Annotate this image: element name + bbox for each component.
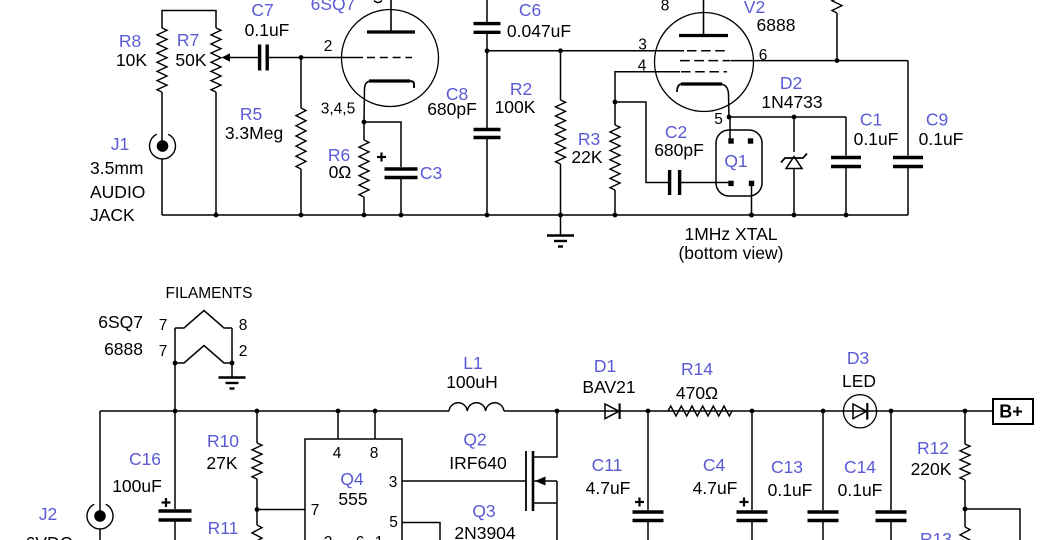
node R3 junction — [613, 100, 618, 105]
wire J2 bottom — [99, 529, 101, 540]
node rail2 x375 — [373, 409, 378, 414]
svg-text:0Ω: 0Ω — [329, 162, 352, 182]
label Q2 — [463, 430, 486, 450]
wire top bracket R8-R7 — [162, 11, 216, 29]
label C3 — [420, 163, 442, 183]
svg-text:L1: L1 — [463, 353, 482, 373]
label 6SQ7 — [311, 0, 356, 14]
label R3 value — [571, 147, 602, 167]
svg-text:IRF640: IRF640 — [449, 453, 507, 473]
label C1 value — [854, 129, 899, 149]
svg-text:2: 2 — [324, 534, 333, 540]
node Q1 rail — [749, 213, 754, 218]
resistor R1 (cut) — [832, 0, 842, 61]
svg-text:2N3904: 2N3904 — [454, 523, 516, 540]
svg-text:3.5mm: 3.5mm — [90, 158, 143, 178]
svg-text:2: 2 — [239, 343, 248, 360]
pin label 8 — [661, 0, 670, 15]
resistor R3 — [610, 125, 620, 190]
svg-text:FILAMENTS: FILAMENTS — [166, 285, 253, 302]
label JACK — [90, 205, 135, 225]
svg-text:4: 4 — [333, 445, 342, 462]
pin stub 4 — [337, 411, 339, 439]
label C7 value — [245, 20, 290, 40]
svg-text:4.7uF: 4.7uF — [693, 478, 738, 498]
label C2 value — [654, 140, 704, 160]
svg-text:6SQ7: 6SQ7 — [98, 312, 143, 332]
label 3.5mm — [90, 158, 143, 178]
wire C7 to V1 grid — [269, 57, 363, 59]
wire C16 top — [174, 411, 176, 509]
label C11 value — [586, 478, 631, 498]
label 6888 — [757, 15, 796, 35]
svg-text:50K: 50K — [175, 50, 206, 70]
svg-text:R7: R7 — [177, 30, 199, 50]
resistor R13 (cut) — [960, 527, 970, 540]
label C7 — [251, 0, 273, 20]
svg-text:8: 8 — [370, 445, 379, 462]
Q2 body stub — [533, 477, 557, 486]
svg-text:C14: C14 — [844, 457, 876, 477]
wire pin5 — [402, 523, 440, 540]
wire R12 top — [964, 411, 966, 444]
wire filament left — [174, 328, 176, 411]
svg-text:C9: C9 — [926, 110, 948, 130]
label Q1 — [724, 151, 747, 171]
plus C3 — [377, 153, 386, 162]
label bottom view — [678, 243, 783, 263]
svg-text:1N4733: 1N4733 — [761, 92, 822, 112]
node rail x401 — [399, 213, 404, 218]
plus C16 — [162, 498, 171, 507]
capacitor C1 — [831, 158, 861, 167]
wire ground stem — [560, 215, 562, 235]
resistor R8 — [157, 28, 167, 92]
Q1 pad2 — [748, 138, 753, 143]
svg-text:100uH: 100uH — [446, 372, 498, 392]
wire R6 bottom — [363, 197, 365, 215]
wire pin7 — [257, 509, 305, 511]
jack J1 — [150, 134, 176, 159]
label R10 value — [206, 453, 237, 473]
svg-text:C11: C11 — [592, 455, 623, 475]
capacitor C4 — [737, 512, 768, 521]
label L1 — [463, 353, 482, 373]
wire R7 to rail — [215, 92, 217, 215]
IC Q4 555 box — [305, 439, 402, 540]
label 2N3904 — [454, 523, 516, 540]
svg-text:C13: C13 — [771, 457, 803, 477]
capacitor C16 — [159, 511, 192, 520]
svg-text:Q3: Q3 — [472, 501, 495, 521]
label Q4 — [340, 469, 364, 489]
plus C4 — [740, 498, 749, 507]
label 6VDC (cut) — [26, 533, 73, 540]
wire Q1 to rail — [751, 186, 753, 215]
label C16 value — [112, 476, 162, 496]
label 1MHz XTAL — [684, 224, 777, 244]
wire R3 bottom — [614, 190, 616, 215]
capacitor C9 — [893, 158, 923, 167]
svg-text:R2: R2 — [510, 79, 532, 99]
node rail x794 — [792, 213, 797, 218]
wire supply rail — [100, 410, 993, 412]
label R6 value — [329, 162, 352, 182]
node rail x216 — [214, 213, 219, 218]
svg-text:D1: D1 — [594, 356, 616, 376]
svg-text:C4: C4 — [703, 455, 726, 475]
wire C11 top — [647, 411, 649, 510]
svg-text:4: 4 — [638, 58, 647, 75]
label C4 — [703, 455, 726, 475]
svg-text:Q1: Q1 — [724, 151, 747, 171]
wire C2 route — [615, 102, 668, 183]
svg-text:(bottom view): (bottom view) — [678, 243, 783, 263]
wire C13 bottom — [822, 522, 824, 540]
wire R10 top — [256, 411, 258, 443]
svg-text:8: 8 — [661, 0, 670, 15]
node rail2 x557 — [555, 409, 560, 414]
label AUDIO — [90, 182, 145, 202]
wire pin5 to Q1 — [729, 117, 731, 140]
svg-text:R10: R10 — [207, 431, 239, 451]
svg-text:5: 5 — [714, 111, 723, 128]
svg-text:7: 7 — [159, 317, 168, 334]
wire R3 top — [614, 102, 616, 125]
tube V2 envelope — [655, 13, 754, 112]
wire C11 bottom — [647, 522, 649, 540]
wire C6 top — [486, 0, 488, 22]
node rail2 x175 — [173, 409, 178, 414]
svg-text:6888: 6888 — [104, 339, 143, 359]
wire pin3 — [402, 480, 526, 482]
node filament left — [173, 361, 178, 366]
node R10-R11 — [255, 507, 260, 512]
wire C4 bottom — [751, 522, 753, 540]
pin label 8b — [370, 445, 379, 462]
svg-text:JACK: JACK — [90, 205, 135, 225]
pin label 2 (cut) — [324, 534, 333, 540]
wire J1 to rail — [161, 159, 163, 216]
label R12 — [917, 438, 949, 458]
svg-text:27K: 27K — [206, 453, 237, 473]
wire R2 bottom — [560, 164, 562, 215]
Q2 source stub — [533, 502, 557, 504]
label R14 — [681, 359, 713, 379]
pin label 7c — [311, 502, 320, 519]
label R8 — [119, 31, 141, 51]
resistor R6 — [359, 140, 369, 197]
wire ground rail (top) — [162, 214, 908, 216]
svg-text:0.1uF: 0.1uF — [919, 129, 964, 149]
wire J2 drop — [99, 411, 101, 511]
svg-text:C1: C1 — [860, 110, 882, 130]
node rail x487 — [485, 213, 490, 218]
label C6 value — [507, 21, 571, 41]
pin label 8a — [239, 317, 248, 334]
wire C6 bottom — [486, 33, 488, 51]
ground (filaments) — [219, 378, 246, 389]
wire pin5 node — [729, 116, 846, 118]
wire C9 bottom — [907, 168, 909, 215]
wire R12 bottom — [964, 480, 966, 509]
svg-text:680pF: 680pF — [427, 99, 477, 119]
label R5 value — [225, 123, 283, 143]
node rail2 x648 — [646, 409, 651, 414]
svg-text:C6: C6 — [519, 0, 541, 20]
V2 grid3 (dashed) — [654, 71, 727, 73]
pin label 2a — [239, 343, 248, 360]
V2 grid1 (dashed) — [687, 50, 729, 52]
svg-text:555: 555 — [338, 489, 367, 509]
svg-text:8: 8 — [239, 317, 248, 334]
label Q3 — [472, 501, 495, 521]
pin label 5b — [389, 514, 398, 531]
V2 cathode — [677, 84, 729, 118]
svg-text:R13: R13 — [920, 529, 952, 540]
svg-text:B+: B+ — [999, 402, 1023, 422]
wire R8 to J1 — [161, 92, 163, 141]
label C9 value — [919, 129, 964, 149]
wire C16 bottom — [174, 522, 176, 540]
svg-text:3: 3 — [389, 474, 398, 491]
svg-text:10K: 10K — [116, 50, 147, 70]
Q1 pad3 — [728, 181, 733, 186]
svg-text:0.1uF: 0.1uF — [768, 480, 813, 500]
svg-text:7: 7 — [311, 502, 320, 519]
svg-text:470Ω: 470Ω — [676, 383, 718, 403]
svg-text:Q2: Q2 — [463, 430, 486, 450]
plus C11 — [635, 498, 644, 507]
wire filament right — [231, 328, 233, 377]
label IRF640 — [449, 453, 507, 473]
Q2 drain stub — [533, 411, 557, 457]
label B+ — [999, 402, 1023, 422]
label C13 value — [768, 480, 813, 500]
svg-text:3: 3 — [638, 37, 647, 54]
wire C3 bottom — [400, 179, 402, 215]
label D2 — [780, 73, 802, 93]
capacitor C2 — [670, 170, 680, 195]
label V2 — [744, 0, 765, 17]
pin label 1 (cut) — [375, 534, 384, 540]
label D3 — [847, 348, 869, 368]
capacitor C3 — [385, 169, 418, 178]
node rail x615 — [613, 213, 618, 218]
svg-text:5: 5 — [389, 514, 398, 531]
node V1 grid junction — [299, 55, 304, 60]
label LED — [842, 371, 876, 391]
label C1 — [860, 110, 882, 130]
wire C14 top — [890, 411, 892, 510]
node rail2 x965 — [963, 409, 968, 414]
label R10 — [207, 431, 239, 451]
label D2 value — [761, 92, 822, 112]
label R5 — [240, 104, 262, 124]
wire C8 top — [486, 51, 488, 128]
filament 6888 — [175, 346, 232, 364]
pin label 2 — [324, 38, 333, 55]
node rail2 x257 — [255, 409, 260, 414]
svg-text:R5: R5 — [240, 104, 262, 124]
label J1 — [111, 134, 129, 154]
svg-text:J1: J1 — [111, 134, 129, 154]
label R3 — [578, 129, 600, 149]
V1 plate — [367, 0, 415, 32]
filament 6SQ7 — [175, 311, 232, 329]
svg-text:1: 1 — [375, 534, 384, 540]
pin label 4 — [638, 58, 647, 75]
wire D2 top — [793, 117, 795, 152]
svg-text:2: 2 — [324, 38, 333, 55]
svg-text:Q4: Q4 — [340, 469, 364, 489]
svg-text:100K: 100K — [495, 97, 536, 117]
transistor Q2 channel — [532, 451, 535, 511]
pin label 3 — [638, 37, 647, 54]
node V1 cathode junction — [362, 120, 367, 125]
node R2 junction — [558, 48, 563, 53]
resistor R14 — [668, 406, 732, 416]
label C11 — [592, 455, 623, 475]
Q1 pad4 — [749, 181, 754, 186]
svg-text:6: 6 — [759, 47, 768, 64]
wire C14 bottom — [890, 522, 892, 540]
label C13 — [771, 457, 803, 477]
svg-text:J2: J2 — [39, 504, 57, 524]
svg-text:D2: D2 — [780, 73, 802, 93]
wire C13 top — [822, 411, 824, 510]
node rail2 x823 — [821, 409, 826, 414]
V1 grid (dashed) — [367, 57, 412, 59]
label R2 — [510, 79, 532, 99]
wire R2 top — [560, 51, 562, 100]
svg-text:3.3Meg: 3.3Meg — [225, 123, 283, 143]
label C16 — [129, 449, 161, 469]
wire V2 pin6 — [731, 60, 908, 62]
label 10K — [116, 50, 147, 70]
wire V2 pin4 — [615, 72, 654, 102]
node R12-R13 — [963, 507, 968, 512]
wire feedback — [965, 509, 1020, 540]
label 6888 row — [104, 339, 143, 359]
svg-text:220K: 220K — [911, 459, 952, 479]
ground (top) — [547, 236, 574, 247]
node rail2 x752 — [750, 409, 755, 414]
inductor L1 — [449, 403, 504, 411]
wire R6 top — [363, 122, 365, 140]
node rail2 x891 — [889, 409, 894, 414]
label R11 — [208, 518, 239, 538]
Q1 pad1 — [728, 138, 733, 143]
node rail x301 — [299, 213, 304, 218]
label C6 — [519, 0, 541, 20]
wire R10 bottom — [256, 479, 258, 510]
resistor R12 — [960, 444, 970, 480]
svg-text:C3: C3 — [420, 163, 442, 183]
svg-text:0.047uF: 0.047uF — [507, 21, 571, 41]
label R2 value — [495, 97, 536, 117]
svg-text:100uF: 100uF — [112, 476, 162, 496]
pin label 4b — [333, 445, 342, 462]
label R12 value — [911, 459, 952, 479]
svg-text:C2: C2 — [665, 122, 687, 142]
label D1 value — [582, 377, 635, 397]
label R6 — [328, 145, 350, 165]
node D2 top — [792, 115, 797, 120]
wire R5 top — [300, 58, 302, 109]
wiper arrow R7 — [222, 53, 259, 62]
svg-text:LED: LED — [842, 371, 876, 391]
wire to V2 grid1 — [487, 50, 684, 52]
svg-text:R3: R3 — [578, 129, 600, 149]
diode D1 — [605, 404, 620, 420]
capacitor C13 — [808, 512, 839, 521]
svg-text:3,4,5: 3,4,5 — [321, 101, 355, 118]
node filament right — [230, 361, 235, 366]
wire C1 bottom — [845, 168, 847, 215]
label R13 — [920, 529, 952, 540]
svg-text:6VDC: 6VDC — [26, 533, 73, 540]
label L1 value — [446, 372, 498, 392]
svg-text:R11: R11 — [208, 518, 239, 538]
svg-text:7: 7 — [159, 343, 168, 360]
svg-text:BAV21: BAV21 — [582, 377, 635, 397]
label R14 value — [676, 383, 718, 403]
label FILAMENTS — [166, 285, 253, 302]
zener D2 — [781, 154, 807, 216]
jack J2 — [87, 504, 113, 529]
label C9 — [926, 110, 948, 130]
node rail x364 — [362, 213, 367, 218]
svg-text:6: 6 — [356, 534, 365, 540]
wire C4 top — [751, 411, 753, 510]
node C6-C8 junction — [485, 48, 490, 53]
svg-text:R12: R12 — [917, 438, 949, 458]
pin label 3b — [389, 474, 398, 491]
wire to C3 — [364, 122, 401, 167]
label R7 — [177, 30, 199, 50]
svg-text:0.1uF: 0.1uF — [854, 129, 899, 149]
capacitor C6 — [474, 24, 501, 33]
label 6SQ7 row — [98, 312, 143, 332]
label C14 value — [838, 480, 883, 500]
wire R5 bottom — [300, 169, 302, 215]
LED D3 diode — [853, 403, 867, 420]
resistor R11 (cut) — [252, 525, 262, 540]
V1 cathode — [364, 81, 414, 122]
capacitor C11 — [633, 512, 664, 521]
svg-text:AUDIO: AUDIO — [90, 182, 145, 202]
svg-text:R8: R8 — [119, 31, 141, 51]
svg-text:1MHz XTAL: 1MHz XTAL — [684, 224, 777, 244]
svg-text:D3: D3 — [847, 348, 869, 368]
wire C1 top — [845, 117, 847, 156]
tube V1 envelope — [342, 10, 439, 107]
svg-text:22K: 22K — [571, 147, 602, 167]
svg-text:4.7uF: 4.7uF — [586, 478, 631, 498]
wire Q2 source down — [556, 481, 558, 540]
node rail2 x338 — [336, 409, 341, 414]
wire R11 top — [256, 510, 258, 526]
crystal Q1 package — [716, 130, 762, 196]
label 50K — [175, 50, 206, 70]
label C8 value — [427, 99, 477, 119]
V2 grid2 (dashed) — [680, 60, 731, 62]
label C4 value — [693, 478, 738, 498]
transistor Q2 gate — [525, 451, 527, 511]
svg-text:R14: R14 — [681, 359, 713, 379]
svg-text:0.1uF: 0.1uF — [245, 20, 290, 40]
